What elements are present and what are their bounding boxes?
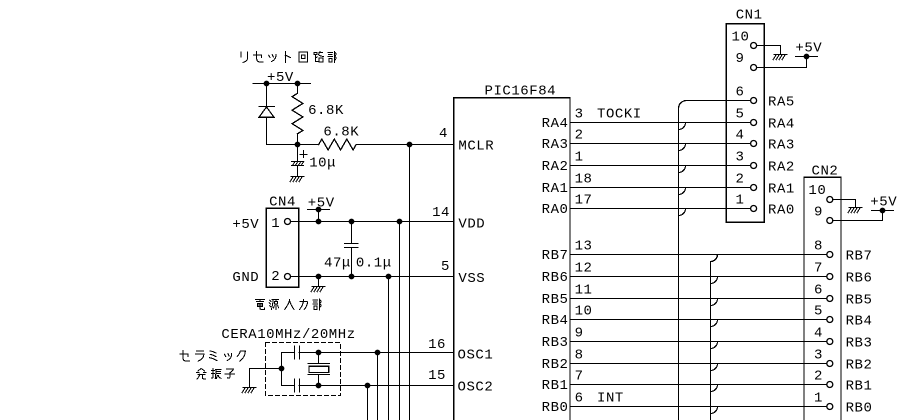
net label RB7 (CN2) [846,248,873,264]
svg-text:RB0: RB0 [846,400,873,416]
svg-text:CERA10MHz/20MHz: CERA10MHz/20MHz [221,327,355,343]
pin circle CN1-10 [751,43,757,49]
pin number 4 (CN1) [736,128,745,144]
pin number 9 (CN1) [736,51,745,67]
capacitor C2 47u/0.1u [345,222,358,277]
svg-text:9: 9 [736,51,745,67]
pin number 7 (CN2) [814,261,823,277]
junction resonator common [279,366,285,372]
net label RA1 (CN1) [768,181,795,197]
pin label RA1 [542,181,569,197]
node reset junction [295,142,301,148]
wire OSC1 stub down [377,353,379,420]
svg-text:RB3: RB3 [542,335,569,351]
svg-text:RA1: RA1 [768,181,795,197]
svg-text:+5V: +5V [795,41,822,57]
pin circle CN1-1 [751,206,757,212]
pin circle CN2-3 [827,361,833,367]
svg-text:RA4: RA4 [542,116,569,132]
pin number 1 (CN1) [736,193,745,209]
pin number 18 [575,172,593,188]
wire RA1 (pin 18) [570,187,751,189]
power +5V rail (reset) [253,70,310,86]
junction OSC1/resonator [316,350,322,356]
svg-text:8: 8 [575,348,584,364]
wire VSS stub down [388,277,390,420]
bus entry RA3 [679,144,686,151]
ground (CN2 pin10) [848,208,862,213]
svg-text:CN1: CN1 [736,8,763,24]
svg-text:5: 5 [441,259,450,275]
svg-text:10: 10 [575,304,593,320]
svg-text:RB5: RB5 [846,292,873,308]
pin circle CN1-9 [751,65,757,71]
net label RA0 (CN1) [768,202,795,218]
connector CN2 body [804,177,841,420]
pin circle CN2-9 [827,218,833,224]
pin number 6 [575,391,584,407]
capacitor C1 10u body [292,145,304,177]
svg-text:RA2: RA2 [542,159,569,175]
wire RB1 (pin 7) [570,384,827,386]
pin number 3 (CN2) [814,348,823,364]
pin number 1 (CN4) [271,216,280,232]
connector CN1 name [736,8,763,24]
svg-text:VDD: VDD [458,217,485,233]
junction MCLR stub [407,142,413,148]
svg-text:OSC1: OSC1 [458,347,494,363]
label +5V (CN4 pin1) [232,217,259,233]
net label RB6 (CN2) [846,270,873,286]
capacitor C4 (resonator bottom) [282,379,319,392]
IC U1 PIC16F84 name [485,84,557,100]
junction VDD stub [397,219,403,225]
pin number 15 (OSC2) [428,368,446,384]
svg-text:7: 7 [575,369,584,385]
svg-text:6: 6 [814,283,823,299]
wire RB0 (pin 6) [570,406,827,408]
svg-text:1: 1 [814,391,823,407]
connector CN4 name [269,195,296,211]
svg-text:1: 1 [575,150,584,166]
wire RB5 (pin 11) [570,298,827,300]
pin label RA2 [542,159,569,175]
svg-text:1: 1 [736,193,745,209]
pin label RB1 [542,378,569,394]
power +5V (CN2) [870,194,897,210]
pin circle CN4-1 [285,219,291,225]
svg-text:VSS: VSS [458,271,485,287]
wire RA5 to CN1 pin6 [687,100,751,102]
svg-text:5: 5 [736,107,745,123]
pin number 17 [575,193,593,209]
wire diode branch down [266,84,268,107]
connector CN1 body [726,24,764,223]
wire OSC1 [319,352,454,354]
pin label VSS [458,271,485,287]
svg-text:TOCKI: TOCKI [597,107,642,123]
value label 6.8K (R2) [323,124,359,140]
svg-text:MCLR: MCLR [458,139,494,155]
svg-text:RB3: RB3 [846,335,873,351]
svg-text:0.1μ: 0.1μ [356,255,392,271]
svg-text:PIC16F84: PIC16F84 [485,84,557,100]
label power input section (電源入力部) [255,299,321,310]
svg-text:9: 9 [575,326,584,342]
pin number 3 (CN1) [736,150,745,166]
svg-text:4: 4 [814,326,823,342]
svg-text:RB2: RB2 [846,357,873,373]
pin circle CN2-8 [827,252,833,258]
pin label OSC2 [458,380,494,396]
junction VSS/ground [316,274,322,280]
wire CN1 pin9 to +5V [757,57,807,68]
svg-text:2: 2 [736,172,745,188]
svg-text:RB4: RB4 [542,313,569,329]
pin number 5 (CN2) [814,304,823,320]
resistor R2 6.8K (horizontal) [319,139,357,150]
pin number 1 [575,150,584,166]
svg-text:GND: GND [232,270,259,286]
wire OSC2 stub down [367,386,369,420]
svg-text:RB7: RB7 [542,248,569,264]
net label RB2 (CN2) [846,357,873,373]
pin number 10 (CN1) [732,29,750,45]
svg-text:47μ: 47μ [324,255,351,271]
bus RA (vertical) [679,101,687,420]
junction reset rail / diode [264,81,270,87]
wire ground drop (CN4) [318,277,320,286]
label reset circuit (リセット回路部) [241,52,336,63]
pin number 9 [575,326,584,342]
pin number 7 [575,369,584,385]
resonator module dashed box [266,343,341,396]
ground (CN1 pin10) [773,55,787,60]
svg-text:6.8K: 6.8K [308,103,344,119]
wire CN2 pin9 to +5V [833,211,883,221]
pin number 2 (CN2) [814,369,823,385]
pin label VDD [458,217,485,233]
pin number 4 (MCLR) [439,126,448,142]
resistor R1 6.8K (vertical) [292,84,303,145]
pin number 4 (CN2) [814,326,823,342]
wire RA4 (pin 3) [570,122,751,124]
pin number 3 [575,107,584,123]
junction OSC1 stub [375,350,381,356]
wire RA2 (pin 1) [570,165,751,167]
svg-text:RA4: RA4 [768,116,795,132]
pin label RB4 [542,313,569,329]
pin number 6 (CN1) [736,85,745,101]
power +5V (CN4) [308,196,335,212]
svg-text:RB7: RB7 [846,248,873,264]
junction OSC2 stub [365,383,371,389]
pin circle CN2-5 [827,317,833,323]
wire RB3 (pin 9) [570,341,827,343]
IC U1 PIC16F84 body [454,98,570,420]
junction VSS stub [386,274,392,280]
wire resonator common to ground [250,369,282,388]
pin number 6 (CN2) [814,283,823,299]
capacitor C3 (resonator top) [282,346,319,359]
pin circle CN4-2 [285,274,291,280]
pin circle CN2-2 [827,382,833,388]
wire MCLR stub down [409,145,411,420]
pin label RB3 [542,335,569,351]
pin number 11 [575,283,593,299]
wire RB2 (pin 8) [570,363,827,365]
junction VDD/+5V [316,219,322,225]
net label RB5 (CN2) [846,292,873,308]
value label 47u [324,255,351,271]
svg-text:6.8K: 6.8K [323,124,359,140]
svg-text:RB4: RB4 [846,313,873,329]
net label RA5 (CN1) [768,94,795,110]
bus entry RB2 [711,364,718,371]
svg-text:RB5: RB5 [542,292,569,308]
svg-text:RA5: RA5 [768,94,795,110]
pin number 16 (OSC1) [428,337,446,353]
net label RB0 (CN2) [846,400,873,416]
svg-text:3: 3 [814,348,823,364]
connector CN4 body [266,208,299,287]
junction VDD/capacitor [349,219,355,225]
wire VDD stub down [399,222,401,420]
pin label RA4 [542,116,569,132]
wire CN1 pin10 to ground [757,46,781,55]
pin label RB2 [542,357,569,373]
pin number 8 [575,348,584,364]
svg-text:3: 3 [736,150,745,166]
svg-text:RB0: RB0 [542,400,569,416]
pin number 5 (VSS) [441,259,450,275]
net label RB4 (CN2) [846,313,873,329]
svg-text:RB1: RB1 [542,378,569,394]
pin number 2 (CN4) [271,269,280,285]
svg-text:+5V: +5V [232,217,259,233]
pin circle CN2-7 [827,274,833,280]
connector CN2 name [812,164,839,180]
wire RA3 (pin 2) [570,143,751,145]
bus entry RB4 [711,320,718,327]
wire diode anode to node [267,117,298,144]
pin number 9 (CN2) [814,205,823,221]
pin label RB0 [542,400,569,416]
junction +5V (CN2) [880,208,886,214]
svg-text:2: 2 [814,369,823,385]
junction reset rail / resistor [295,81,301,87]
svg-text:10μ: 10μ [309,155,336,171]
pin label MCLR [458,139,494,155]
svg-text:RA3: RA3 [768,137,795,153]
pin circle CN1-4 [751,141,757,147]
svg-text:8: 8 [814,239,823,255]
power +5V (CN1) [795,41,822,57]
svg-text:4: 4 [736,128,745,144]
net label RA4 (CN1) [768,116,795,132]
svg-text:2: 2 [271,269,280,285]
wire +5V drop (CN4) [318,210,320,222]
bus entry RB3 [711,342,718,349]
svg-text:6: 6 [575,391,584,407]
svg-text:INT: INT [597,391,624,407]
svg-text:+5V: +5V [267,70,294,86]
pin circle CN1-3 [751,163,757,169]
pin number 13 [575,239,593,255]
value label 10u [309,155,336,171]
net label RB3 (CN2) [846,335,873,351]
pin label OSC1 [458,347,494,363]
svg-text:RA1: RA1 [542,181,569,197]
label GND (CN4 pin2) [232,270,259,286]
bus entry RB1 [711,385,718,392]
wire VSS rail [291,276,454,278]
bus entry RA2 [679,166,686,173]
ground (reset capacitor) [290,177,304,182]
net label RA3 (CN1) [768,137,795,153]
wire RB4 (pin 10) [570,319,827,321]
wire OSC2 [319,385,454,387]
svg-text:RA0: RA0 [768,202,795,218]
pin label RB5 [542,292,569,308]
value label 0.1u [356,255,392,271]
pin label RB6 [542,270,569,286]
signal label INT [597,391,624,407]
svg-text:RB2: RB2 [542,357,569,373]
pin number 10 [575,304,593,320]
svg-text:3: 3 [575,107,584,123]
wire VDD rail [291,221,454,223]
label CERA10MHz/20MHz [221,327,355,343]
svg-text:9: 9 [814,205,823,221]
net label RB1 (CN2) [846,378,873,394]
capacitor C1 10u plus sign [300,151,307,158]
svg-text:RA0: RA0 [542,202,569,218]
wire RA0 (pin 17) [570,208,751,210]
pin number 2 (CN1) [736,172,745,188]
pin number 14 (VDD) [432,205,450,221]
svg-text:5: 5 [814,304,823,320]
svg-text:RA2: RA2 [768,159,795,175]
pin number 12 [575,261,593,277]
svg-text:10: 10 [808,183,826,199]
svg-text:RB6: RB6 [542,270,569,286]
junction +5V (CN1) [804,54,810,60]
wire resonator common vertical [281,353,283,386]
ground (CN4) [311,287,325,292]
bus entry RB0 [711,407,718,414]
pin label RA0 [542,202,569,218]
svg-text:16: 16 [428,337,446,353]
value label 6.8K (R1) [308,103,344,119]
pin circle CN1-2 [751,185,757,191]
svg-text:17: 17 [575,193,593,209]
wire RB6 (pin 12) [570,276,827,278]
svg-text:7: 7 [814,261,823,277]
bus entry RA4 [679,123,686,130]
svg-text:10: 10 [732,29,750,45]
pin number 2 [575,128,584,144]
bus RB (vertical) [711,255,718,420]
junction +5V bar (CN4) [316,207,322,213]
svg-text:12: 12 [575,261,593,277]
junction resonator bottom [316,383,322,389]
wire R2 to MCLR pin [356,144,453,146]
pin circle CN1-6 [751,98,757,104]
pin circle CN1-5 [751,120,757,126]
label ceramic (セラミック) [180,351,245,362]
svg-text:RB6: RB6 [846,270,873,286]
pin circle CN2-1 [827,404,833,410]
svg-text:6: 6 [736,85,745,101]
svg-text:RA3: RA3 [542,137,569,153]
pin number 10 (CN2) [808,183,826,199]
wire node to R2 [298,144,319,146]
svg-text:11: 11 [575,283,593,299]
wire RB7 (pin 13) [570,254,827,256]
signal label TOCKI [597,107,642,123]
pin label RB7 [542,248,569,264]
bus entry RB6 [711,277,718,284]
svg-text:RB1: RB1 [846,378,873,394]
svg-text:OSC2: OSC2 [458,380,494,396]
ground (resonator) [242,388,256,393]
svg-text:4: 4 [439,126,448,142]
pin number 8 (CN2) [814,239,823,255]
wire CN2 pin10 to ground [833,200,856,208]
svg-text:2: 2 [575,128,584,144]
pin number 1 (CN2) [814,391,823,407]
pin label RA3 [542,137,569,153]
svg-text:18: 18 [575,172,593,188]
pin circle CN2-6 [827,296,833,302]
junction VSS/capacitor [349,274,355,280]
pin circle CN2-4 [827,339,833,345]
crystal X1 ceramic resonator [308,353,329,386]
bus entry RA1 [679,188,686,195]
svg-text:15: 15 [428,368,446,384]
bus entry RA0 [679,209,686,216]
bus entry RB5 [711,299,718,306]
svg-text:13: 13 [575,239,593,255]
diode D1 [259,107,274,118]
svg-text:1: 1 [271,216,280,232]
net label RA2 (CN1) [768,159,795,175]
pin number 5 (CN1) [736,107,745,123]
label resonator (発振子) [197,368,235,379]
pin circle CN2-10 [827,197,833,203]
svg-text:14: 14 [432,205,450,221]
